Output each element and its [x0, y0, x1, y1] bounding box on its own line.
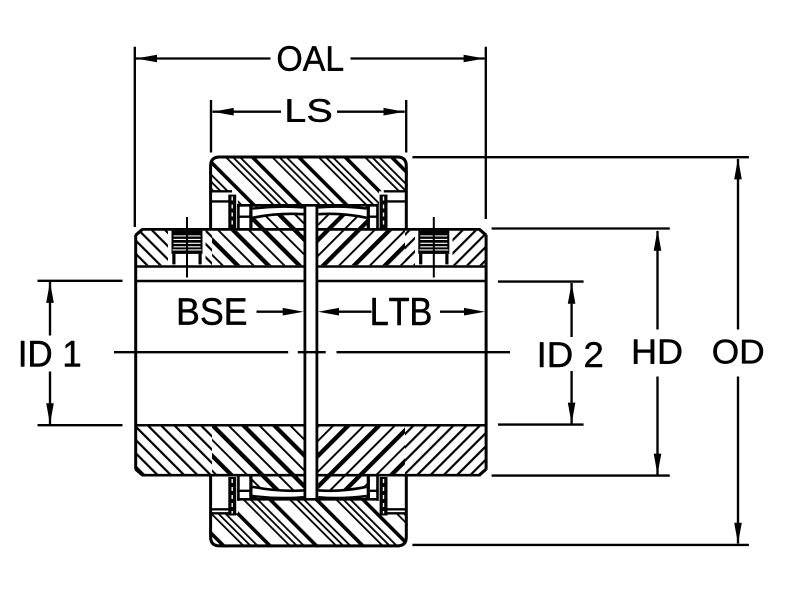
left hub bottom band hatch outer — [136, 426, 212, 474]
bore top line left hub — [136, 280, 306, 283]
BSE dimension — [257, 311, 290, 313]
hub top surface line left — [142, 228, 306, 231]
left hub bottom band hatch inner — [212, 426, 305, 474]
right hub gear tooth section bottom — [318, 476, 376, 498]
set screw right — [418, 217, 449, 278]
seal bottom-left — [228, 477, 236, 516]
keyway line right hub — [317, 265, 487, 267]
grid loop end bottom-right — [367, 476, 370, 500]
right hub top band hatch inner — [316, 231, 406, 266]
seal pocket step line bottom-right — [384, 512, 408, 514]
left hub top band hatch inner — [212, 231, 305, 266]
hub bottom surface line right — [316, 474, 481, 477]
right hub bottom band hatch outer — [405, 426, 486, 474]
right hub chamfer top — [480, 230, 487, 236]
grid spring band top-left — [253, 207, 304, 218]
OAL dimension — [135, 47, 486, 227]
right hub gear tooth section top — [318, 207, 376, 229]
seal pocket step line top-right — [384, 190, 408, 192]
HD dimension — [492, 229, 670, 476]
seal seat line bottom-left — [211, 508, 229, 510]
tooth face line bottom-left — [237, 475, 240, 501]
LTB dimension — [318, 308, 339, 316]
rim divider top-right — [370, 216, 379, 218]
seal pocket step line top-left — [209, 190, 232, 192]
seal bottom-right — [380, 477, 388, 516]
seal seat line top-left — [211, 200, 229, 202]
hub face gap edge left — [303, 206, 306, 499]
left hub top band hatch outer — [136, 231, 212, 266]
seal top-right — [380, 195, 388, 228]
grid spring band bottom-left — [253, 487, 304, 498]
grid rim pocket top-left — [240, 207, 250, 229]
bore bottom line right hub — [317, 424, 487, 427]
tooth face line bottom-right — [376, 475, 379, 501]
bore top line right hub — [317, 280, 487, 283]
ID 1 dimension — [38, 281, 123, 425]
grid rim pocket bottom-right — [370, 476, 376, 498]
set screw left — [172, 217, 203, 278]
seal top-left — [228, 195, 236, 228]
seal seat line bottom-right — [387, 508, 405, 510]
rim divider top-left — [237, 216, 249, 218]
hub bottom surface line left — [142, 474, 306, 477]
left hub outer face line — [134, 235, 137, 470]
shaft centerline — [114, 351, 288, 353]
keyway line left hub — [136, 265, 306, 267]
rim divider bottom-left — [237, 490, 249, 492]
grid rim pocket top-right — [370, 207, 376, 229]
ID 2 dimension — [498, 282, 584, 425]
right hub outer face line — [485, 235, 488, 470]
set screw clearance left — [168, 229, 206, 265]
grid spring band top-right — [318, 207, 366, 218]
LS dimension — [211, 100, 406, 153]
OD dimension — [412, 157, 749, 545]
sleeve inner floor line — [237, 498, 379, 501]
right hub top band hatch outer — [405, 231, 486, 266]
right hub chamfer bottom — [480, 469, 487, 475]
grid loop end top-right — [367, 205, 370, 229]
sleeve top section hatch — [209, 156, 408, 207]
hub top surface line right — [316, 228, 481, 231]
left hub gear tooth section bottom — [240, 476, 304, 498]
tooth face line top-left — [237, 204, 240, 230]
grid loop end bottom-left — [249, 476, 252, 500]
sleeve bottom section hatch — [209, 498, 408, 547]
sleeve inner ceiling line — [237, 204, 379, 207]
bore bottom line left hub — [136, 424, 306, 427]
seal seat line top-right — [387, 200, 405, 202]
grid spring band bottom-right — [318, 487, 366, 498]
set screw clearance right — [415, 229, 453, 265]
left hub gear tooth section top — [240, 207, 304, 229]
left hub chamfer top — [136, 230, 143, 236]
grid loop end top-left — [249, 205, 252, 229]
grid rim pocket bottom-left — [240, 476, 250, 498]
left hub chamfer bottom — [136, 469, 143, 475]
rim divider bottom-right — [370, 490, 379, 492]
seal pocket step line bottom-left — [209, 512, 232, 514]
tooth face line top-right — [376, 204, 379, 230]
hub face gap strip — [306, 207, 315, 498]
sleeve top outline — [211, 157, 407, 230]
sleeve bottom outline — [211, 475, 407, 546]
right hub bottom band hatch inner — [316, 426, 406, 474]
hub face gap edge right — [315, 206, 318, 499]
